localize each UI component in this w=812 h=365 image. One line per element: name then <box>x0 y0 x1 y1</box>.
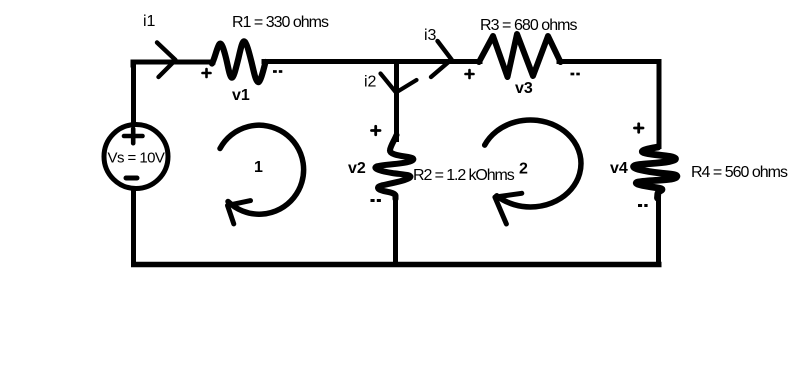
svg-text:R3 = 680 ohms: R3 = 680 ohms <box>480 17 578 34</box>
svg-text:i2: i2 <box>364 74 377 91</box>
v4 minus <box>638 204 648 207</box>
resistor R2 <box>375 135 413 199</box>
wire bottom rail <box>131 262 662 268</box>
svg-text:R4 = 560 ohms: R4 = 560 ohms <box>691 164 788 181</box>
current arrow i2 <box>381 74 417 93</box>
wire right vertical lower <box>656 190 661 266</box>
svg-text:v3: v3 <box>515 80 533 97</box>
Vs minus sign <box>126 176 137 181</box>
svg-text:2: 2 <box>519 161 528 178</box>
current arrow i1 <box>157 43 176 78</box>
current arrow i3 <box>431 41 452 77</box>
wire top rail middle segment <box>264 59 480 64</box>
mesh 1 loop arrow <box>220 125 304 224</box>
wire left vertical lower <box>131 188 136 264</box>
wire left vertical upper <box>131 62 136 124</box>
svg-text:Vs = 10V: Vs = 10V <box>108 150 165 167</box>
svg-text:v1: v1 <box>232 87 250 104</box>
voltage source Vs <box>104 125 168 189</box>
resistor R1 <box>212 41 266 82</box>
wire right vertical upper <box>657 62 662 150</box>
mesh 2 loop arrow <box>485 120 581 224</box>
v3 plus <box>466 70 474 78</box>
svg-text:v4: v4 <box>610 160 628 177</box>
svg-text:i3: i3 <box>424 27 437 44</box>
v2 plus <box>372 126 381 134</box>
wire middle vertical lower <box>393 195 398 266</box>
wire top rail left segment <box>133 62 213 65</box>
svg-text:R2 = 1.2 kOhms: R2 = 1.2 kOhms <box>413 167 515 184</box>
wire middle vertical upper <box>394 60 399 142</box>
resistor R3 <box>479 34 561 77</box>
svg-text:R1 = 330 ohms: R1 = 330 ohms <box>232 14 329 31</box>
svg-text:v2: v2 <box>348 160 366 177</box>
v4 plus <box>635 124 644 132</box>
v1 minus <box>273 70 282 73</box>
v1 plus <box>203 69 211 77</box>
v2 minus <box>371 199 381 202</box>
wire top rail right segment <box>559 62 659 67</box>
resistor R4 <box>634 147 677 198</box>
svg-text:i1: i1 <box>143 13 156 30</box>
v3 minus <box>571 73 580 76</box>
svg-text:1: 1 <box>254 159 263 176</box>
Vs plus sign <box>124 129 143 143</box>
